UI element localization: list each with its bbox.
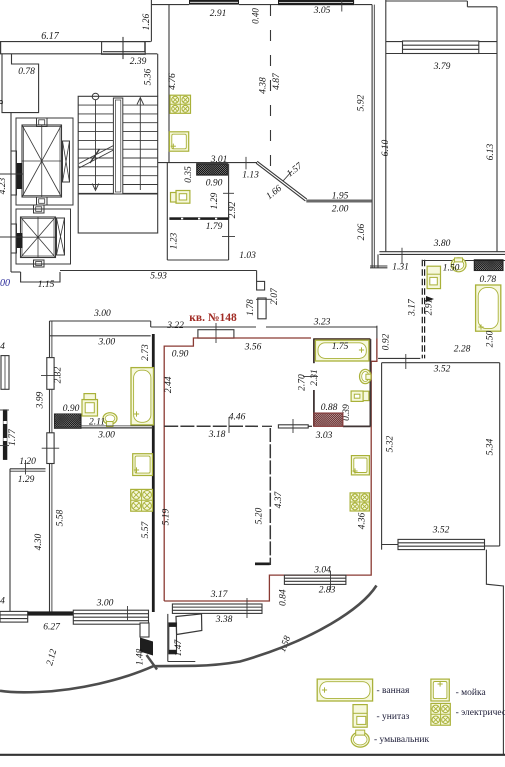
window 3.38 tick	[246, 598, 248, 618]
balcony arc left	[0, 666, 153, 692]
corridor wall right vertical	[256, 271, 258, 282]
window 3.05 tick	[341, 0, 343, 12]
svg-text:- умывальник: - умывальник	[374, 735, 429, 745]
svg-text:1.23: 1.23	[169, 232, 179, 249]
room 035 left wall	[166, 163, 168, 260]
door box x49 lower	[47, 433, 54, 464]
svg-text:5.34: 5.34	[486, 438, 496, 455]
svg-text:кв. №148: кв. №148	[189, 312, 237, 324]
svg-text:6.27: 6.27	[43, 623, 61, 633]
diagonal tick	[283, 171, 292, 181]
top-right room right wall	[496, 7, 498, 252]
svg-text:- мойка: - мойка	[456, 687, 487, 698]
diagonal wall line2	[256, 163, 305, 201]
tick left bar top	[0, 409, 9, 411]
elevator 2 tick	[0, 236, 23, 238]
corner room bottom wall	[10, 468, 46, 470]
svg-text:5.92: 5.92	[356, 94, 366, 111]
building edge step right	[486, 550, 503, 754]
svg-text:3.04: 3.04	[313, 566, 331, 576]
elevator 2 top connector	[34, 205, 45, 213]
svg-text:1.26: 1.26	[142, 13, 152, 30]
door tick 2.32	[41, 374, 60, 376]
top wall segment c	[354, 4, 372, 6]
dimension tick 1.29	[223, 192, 234, 194]
window 6.27 tick	[127, 606, 129, 620]
window 6.27	[73, 610, 148, 624]
svg-text:3.18: 3.18	[208, 430, 226, 440]
svg-text:3.23: 3.23	[313, 318, 331, 328]
svg-text:2.07: 2.07	[270, 287, 280, 305]
svg-text:0.90: 0.90	[172, 350, 189, 360]
top wall segment a	[151, 4, 189, 6]
elevator 2 door mech	[57, 218, 65, 255]
left room wall x49 b	[51, 321, 53, 612]
bottom border line	[0, 754, 505, 756]
apt toilet	[351, 391, 363, 401]
elevator 1 tick	[0, 173, 23, 175]
corridor niche 1.15	[21, 272, 60, 282]
left toilet	[82, 400, 98, 417]
left apt stove	[131, 489, 153, 511]
toilet room 090	[176, 191, 190, 204]
svg-text:2.06: 2.06	[357, 223, 367, 240]
svg-text:3.80: 3.80	[433, 239, 451, 249]
dimension tick 1.31	[401, 248, 403, 264]
svg-text:2.91: 2.91	[210, 9, 227, 19]
legend stove	[431, 703, 450, 725]
svg-text:3.01: 3.01	[210, 155, 228, 165]
dimension tick 1.13	[245, 157, 247, 170]
corridor bottom wall left	[11, 271, 21, 273]
entry door frame lower	[258, 298, 266, 319]
double wall x372	[371, 5, 373, 268]
svg-text:0.90: 0.90	[63, 404, 80, 414]
black bar left	[3, 409, 7, 460]
right bath bottom wall	[378, 357, 420, 359]
apt stove	[350, 493, 369, 511]
svg-text:1.13: 1.13	[242, 171, 259, 181]
svg-text:5.19: 5.19	[162, 508, 172, 525]
window bottom left	[0, 611, 28, 622]
wall vertical x151 top	[150, 0, 152, 42]
svg-text:3.00: 3.00	[96, 599, 114, 609]
window 3.52	[398, 539, 485, 549]
staircase flight end line	[78, 193, 158, 195]
staircase stringer	[113, 98, 122, 194]
legend toilet	[353, 705, 367, 728]
bathroom top wall	[313, 338, 370, 340]
door arrow mark	[426, 296, 434, 302]
red boundary left part	[164, 338, 311, 601]
svg-text:0.35: 0.35	[184, 166, 194, 183]
right room left wall	[381, 363, 383, 550]
top wall segment b	[239, 4, 278, 6]
svg-text:1.75: 1.75	[332, 342, 349, 352]
right apt toilet	[427, 266, 440, 288]
svg-text:4.36: 4.36	[357, 512, 367, 529]
left balcony door white	[140, 623, 149, 637]
corridor wall y162	[158, 162, 257, 164]
right bath top wall	[422, 260, 505, 262]
svg-text:3.00: 3.00	[97, 431, 115, 441]
svg-text:0.40: 0.40	[251, 8, 261, 24]
room divider x270 dashed	[269, 428, 271, 565]
elevator lobby left wall	[10, 113, 12, 272]
svg-text:3.17: 3.17	[210, 590, 229, 600]
svg-text:00: 00	[0, 278, 10, 289]
elevator 1 door mech	[63, 141, 70, 182]
svg-text:4.30: 4.30	[34, 533, 44, 550]
svg-text:2.28: 2.28	[454, 345, 471, 355]
bathroom left wall upper	[313, 339, 315, 363]
apt top wall right part	[266, 326, 377, 328]
corridor bottom wall long	[60, 270, 257, 272]
balcony arc right	[153, 586, 376, 667]
svg-text:4: 4	[0, 342, 5, 352]
corridor wall right part	[370, 267, 387, 269]
svg-text:- ванная: - ванная	[377, 686, 411, 696]
window 3.79	[403, 41, 479, 54]
svg-text:0.88: 0.88	[321, 403, 338, 413]
balcony side wall	[167, 614, 169, 662]
top-right room left wall	[385, 0, 387, 252]
elevator 1 outer box	[16, 118, 73, 205]
tick left bar bottom	[0, 445, 9, 447]
svg-text:2.92: 2.92	[228, 201, 238, 218]
right apt sink circle	[451, 258, 466, 272]
svg-text:2.00: 2.00	[332, 205, 349, 215]
svg-text:0.90: 0.90	[206, 179, 223, 189]
room divider door frame	[278, 425, 308, 428]
svg-text:1.77: 1.77	[8, 428, 18, 446]
bottom wall between windows	[28, 611, 74, 615]
door tick x49 lower	[42, 447, 60, 449]
svg-text:1.03: 1.03	[239, 251, 256, 261]
elevator 2 bottom connector	[34, 260, 45, 267]
room 0.78 outline	[2, 54, 39, 113]
svg-text:6.17: 6.17	[41, 31, 60, 42]
svg-text:5.32: 5.32	[386, 435, 396, 452]
staircase up arrow	[139, 98, 141, 191]
svg-text:3.99: 3.99	[35, 391, 45, 409]
top-right room top edge	[386, 0, 468, 2]
svg-text:2.39: 2.39	[130, 57, 147, 67]
wall step 2.39 room	[103, 42, 145, 52]
svg-text:1.78: 1.78	[246, 299, 256, 316]
svg-text:6.13: 6.13	[486, 143, 496, 160]
wall cap left edge	[0, 42, 2, 54]
window 2.91 dark bar	[189, 0, 239, 5]
room divider wall y427 b	[262, 425, 272, 427]
right hall step wall	[377, 254, 379, 267]
legend bath	[317, 679, 372, 701]
elevator 2 outer box	[16, 209, 71, 264]
elevator 1 bottom connector	[37, 197, 48, 205]
svg-text:5.20: 5.20	[254, 507, 264, 524]
elevator 1 landing door	[11, 151, 17, 195]
corridor wall y200 line1	[306, 199, 372, 201]
svg-text:3.00: 3.00	[97, 338, 115, 348]
svg-text:1.95: 1.95	[332, 191, 349, 201]
right room right wall	[499, 363, 501, 546]
svg-text:1.31: 1.31	[392, 263, 409, 273]
svg-text:3.38: 3.38	[215, 615, 233, 625]
kitchen left wall	[168, 5, 170, 163]
legend sink	[351, 732, 369, 747]
svg-text:3.03: 3.03	[315, 431, 333, 441]
svg-text:3.22: 3.22	[166, 321, 184, 331]
svg-text:4.37: 4.37	[274, 490, 284, 508]
svg-text:1.79: 1.79	[206, 222, 223, 232]
svg-text:0.78: 0.78	[479, 275, 496, 285]
svg-text:1.20: 1.20	[19, 457, 36, 467]
door box 2.32	[47, 358, 54, 390]
elevator 2 cab	[21, 217, 56, 258]
room 179 bottom wall	[167, 259, 228, 261]
apt entry door frame	[198, 330, 234, 338]
window 3.38	[172, 604, 262, 613]
svg-text:0.92: 0.92	[381, 333, 391, 350]
staircase break line	[79, 150, 114, 168]
left apt dividing wall	[55, 427, 154, 429]
corridor wall step	[150, 321, 152, 327]
top-right room bottom wall	[379, 251, 505, 253]
svg-text:8: 8	[0, 99, 5, 104]
elevator 2 landing door	[11, 224, 17, 253]
top-right corner step	[466, 1, 468, 7]
staircase down arrow	[92, 93, 99, 100]
svg-text:2.50: 2.50	[485, 330, 495, 347]
elevator 1 top connector	[37, 118, 48, 127]
bath 1.75	[315, 340, 369, 361]
svg-text:2.83: 2.83	[319, 586, 336, 596]
right hall left wall dashed	[421, 260, 423, 359]
room 035 right wall	[228, 164, 230, 260]
svg-text:5.57: 5.57	[141, 520, 151, 538]
entry door tick	[256, 298, 272, 300]
wall top-left corridor upper face	[0, 41, 151, 43]
staircase outer box	[78, 96, 158, 233]
kitchen stove	[170, 95, 191, 113]
right room top wall	[382, 362, 500, 364]
window 2.83	[284, 575, 346, 584]
left balcony door black leaf	[140, 638, 153, 656]
window 2.83 tick	[330, 571, 332, 590]
balcony door jamb	[169, 623, 177, 654]
svg-text:3.56: 3.56	[244, 343, 262, 353]
corridor wall y200 line2	[306, 201, 372, 203]
svg-text:4.38: 4.38	[258, 77, 268, 94]
dimension tick 6.17	[122, 37, 124, 59]
apt entry door tick	[215, 323, 217, 343]
staircase steps	[78, 104, 113, 106]
bathroom bottom wall	[343, 425, 371, 427]
left room wall x49 a	[49, 321, 51, 612]
svg-text:1.48: 1.48	[136, 648, 146, 665]
kitchen sink mojka	[169, 132, 188, 151]
diagonal wall line1	[257, 161, 307, 199]
dimension tick 2.70	[303, 376, 318, 378]
svg-text:4.76: 4.76	[168, 73, 178, 90]
left apt mojka	[133, 454, 153, 476]
wall between 090 and 179	[169, 217, 228, 220]
right step wall 092	[376, 326, 378, 359]
svg-text:3.79: 3.79	[433, 62, 451, 72]
entry door frame upper	[257, 281, 265, 290]
svg-text:3.05: 3.05	[313, 6, 331, 16]
svg-text:4.87: 4.87	[272, 72, 282, 90]
corridor wall above apt upper	[50, 320, 151, 322]
svg-text:6.10: 6.10	[381, 139, 391, 156]
left bath	[131, 368, 154, 425]
corridor wall above apt lower	[50, 335, 151, 337]
window 3.79 wall faces	[386, 41, 403, 43]
dimension tick 4.46	[228, 417, 230, 433]
svg-text:1.50: 1.50	[443, 264, 460, 274]
svg-text:4.46: 4.46	[229, 413, 246, 423]
apt mojka	[351, 456, 369, 475]
dimension tick 292	[222, 236, 235, 238]
room divider door tick	[292, 419, 294, 433]
svg-text:3.52: 3.52	[432, 526, 450, 536]
svg-text:2.44: 2.44	[164, 376, 174, 393]
svg-text:1.29: 1.29	[18, 475, 35, 485]
balcony joint diagonal	[147, 655, 158, 670]
room divider wall y427 a	[164, 425, 258, 427]
right room bottom wall bits	[382, 544, 398, 546]
svg-text:2.31: 2.31	[310, 369, 320, 386]
corner room tick	[25, 460, 27, 475]
svg-text:5.93: 5.93	[150, 272, 167, 282]
svg-text:4: 4	[0, 597, 5, 607]
svg-text:1.15: 1.15	[38, 280, 55, 290]
apt sink circle	[360, 369, 372, 383]
apt top wall left part	[151, 326, 256, 328]
svg-text:3.17: 3.17	[407, 298, 417, 317]
svg-text:3.52: 3.52	[433, 365, 451, 375]
right apt bath	[476, 285, 501, 331]
svg-text:0.78: 0.78	[18, 67, 35, 77]
bathroom left wall lower	[313, 390, 315, 427]
corner room left wall	[9, 469, 11, 612]
red boundary right part	[164, 339, 377, 602]
wall stub y563	[255, 563, 270, 566]
dimension tick 352	[405, 354, 407, 369]
svg-text:5.36: 5.36	[144, 68, 154, 85]
svg-text:4.23: 4.23	[0, 177, 8, 194]
window left wall 177	[1, 356, 9, 390]
svg-text:- электрическая: - электрическая	[456, 708, 505, 718]
bathroom right wall	[369, 339, 371, 426]
svg-text:5.58: 5.58	[56, 509, 66, 526]
elevator 1 cab	[22, 125, 62, 197]
svg-text:2.32: 2.32	[54, 366, 64, 383]
svg-text:1.47: 1.47	[174, 638, 184, 656]
svg-text:2.91: 2.91	[424, 299, 434, 316]
separation wall x153	[152, 334, 155, 612]
kitchen partition dashed	[270, 5, 272, 168]
door box on 6.17 wall	[102, 42, 146, 55]
svg-text:2.73: 2.73	[141, 344, 151, 361]
svg-text:1.29: 1.29	[210, 192, 220, 209]
landing right wall	[157, 54, 159, 97]
window 3.05 box	[278, 0, 354, 5]
legend mojka	[431, 679, 449, 701]
wall top-left corridor lower face	[0, 53, 157, 55]
svg-text:0.84: 0.84	[278, 589, 288, 606]
left sink circle	[103, 413, 117, 425]
svg-text:- унитаз: - унитаз	[377, 712, 410, 722]
svg-text:3.00: 3.00	[93, 309, 111, 319]
svg-text:0.39: 0.39	[342, 404, 352, 421]
balcony door leaf	[176, 614, 202, 635]
